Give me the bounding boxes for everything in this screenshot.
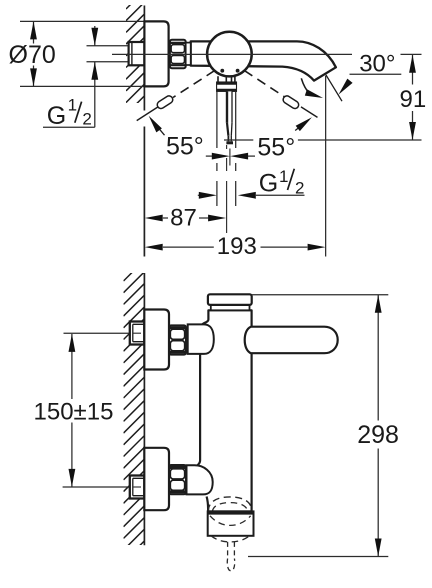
leader line G1/2 label (left) bbox=[43, 126, 95, 128]
svg-text:30°: 30° bbox=[359, 50, 395, 77]
union nut upper (front) bbox=[169, 325, 186, 354]
dimension 87 bbox=[145, 215, 226, 222]
dimension 193 bbox=[145, 244, 326, 251]
escutcheon flange (top view) bbox=[144, 21, 168, 86]
dimension line D70 bbox=[33, 21, 35, 86]
dimension line G1/2 pipe bbox=[94, 26, 96, 127]
91 bottom extension line bbox=[224, 139, 422, 141]
30 degree reference line bbox=[326, 75, 342, 101]
screw dots bbox=[220, 69, 224, 73]
55 leader arrow (left) bbox=[151, 119, 165, 135]
svg-text:55°: 55° bbox=[257, 133, 295, 161]
label G1/2 (left) bbox=[47, 96, 92, 131]
wall socket upper (front) bbox=[130, 322, 145, 345]
wall socket (top view) bbox=[129, 42, 145, 65]
298 bottom extension line bbox=[248, 556, 388, 558]
298 top extension line bbox=[252, 294, 389, 296]
lever handle capsule (front) bbox=[245, 327, 338, 354]
dimension 91 bbox=[409, 55, 416, 140]
svg-text:2: 2 bbox=[82, 110, 91, 129]
outlet dashed arcs bbox=[208, 497, 252, 511]
svg-text:Ø70: Ø70 bbox=[9, 41, 56, 69]
supply pipe and spout body outline bbox=[191, 41, 336, 80]
outlet stub with drip bbox=[227, 542, 234, 571]
spout swivel curved arrow bbox=[301, 78, 310, 94]
extension lines G1/2 pipe (top) bbox=[87, 46, 145, 62]
connector collar (top view) bbox=[186, 43, 191, 65]
svg-text:87: 87 bbox=[170, 204, 197, 231]
extension lines for diameter 70 bbox=[20, 21, 144, 86]
escutcheon flange upper (front) bbox=[144, 310, 169, 370]
30 leader line and arrow bbox=[350, 73, 402, 75]
lever side profile / extension lines bbox=[217, 91, 236, 206]
55 dimension arrows to centre bbox=[206, 153, 255, 160]
lever swing line to wall (left) bbox=[137, 107, 158, 121]
lever end capsule (right 55) bbox=[282, 94, 300, 109]
lever collar bbox=[217, 82, 237, 91]
wall hatching (front view) bbox=[124, 260, 145, 562]
svg-text:150±15: 150±15 bbox=[34, 398, 114, 425]
150 extension lines bbox=[63, 333, 145, 487]
svg-text:1: 1 bbox=[68, 96, 77, 115]
escutcheon flange lower (front) bbox=[144, 448, 169, 510]
label G1/2 (middle) bbox=[259, 167, 305, 198]
wall face line (top view) bbox=[143, 6, 145, 257]
G1/2 dimension (middle) bbox=[198, 192, 305, 199]
wall hatching (top view) bbox=[126, 0, 144, 114]
lever swing dashed line (right 55) bbox=[244, 71, 284, 97]
union nut (top view) bbox=[170, 40, 186, 69]
svg-text:2: 2 bbox=[295, 179, 304, 198]
lever swing line (right) bbox=[301, 107, 318, 118]
centerline through faucet body bbox=[112, 53, 422, 55]
svg-text:G: G bbox=[47, 102, 66, 130]
outlet cup bbox=[207, 511, 254, 542]
dimension 150+-15 bbox=[69, 334, 76, 487]
lever centre extension lines bbox=[227, 145, 230, 233]
svg-text:298: 298 bbox=[357, 421, 399, 449]
lever swing dashed line (left 55) bbox=[173, 71, 215, 98]
svg-text:91: 91 bbox=[400, 86, 427, 113]
svg-text:55°: 55° bbox=[166, 133, 204, 161]
spout tip extension line bbox=[325, 76, 327, 257]
wall socket lower (front) bbox=[130, 476, 145, 499]
lever end capsule (left 55) bbox=[156, 94, 174, 109]
cartridge circle (top view) bbox=[207, 32, 252, 77]
svg-text:G: G bbox=[259, 170, 278, 198]
union nut lower (front) bbox=[169, 465, 186, 494]
dimension 298 bbox=[375, 295, 382, 557]
svg-text:193: 193 bbox=[217, 233, 257, 260]
55 leader arrow (right) bbox=[295, 120, 309, 131]
wall face line (front view) bbox=[143, 273, 145, 545]
check valve dome lower (front) bbox=[187, 465, 213, 494]
check valve dome upper (front) bbox=[188, 324, 214, 354]
lever shaft bbox=[227, 91, 232, 141]
lever end cap bbox=[226, 141, 233, 144]
lever yoke bbox=[218, 76, 235, 82]
svg-text:1: 1 bbox=[279, 167, 288, 186]
faucet body (front view) bbox=[197, 310, 251, 511]
body top cap (front) bbox=[211, 305, 250, 310]
